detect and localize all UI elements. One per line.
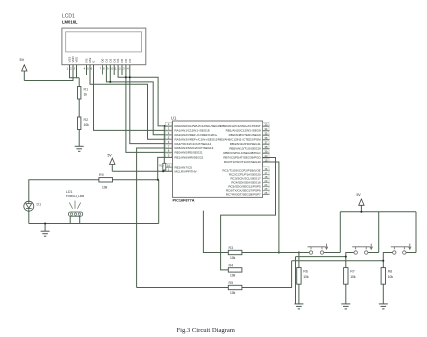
svg-text:RC0/T1OSO/T1CKI/SEG40: RC0/T1OSO/T1CKI/SEG40 (224, 160, 261, 164)
LED D1 (24, 201, 34, 211)
wire H_b to SW3 R8 node (292, 260, 384, 262)
svg-text:RE1/AN6/WR/SEG22: RE1/AN6/WR/SEG22 (175, 156, 204, 160)
wire 5V to MCLR pin (112, 170, 172, 172)
svg-text:RA4/T0CKI/C1OUT/SEG14: RA4/T0CKI/C1OUT/SEG14 (175, 142, 212, 146)
wire PIC RC0 down to switch rail (263, 162, 279, 253)
svg-text:6: 6 (91, 67, 93, 71)
svg-text:RC7/RX/DT/SEG28/PSP7: RC7/RX/DT/SEG28/PSP7 (226, 193, 261, 197)
wire H_a from SW2 R7 node (296, 256, 346, 258)
wire PIC RE1 row6 to R5 (137, 148, 173, 288)
wire LCD VEE pin3 drop (76, 65, 78, 78)
ground below R2 (75, 146, 84, 151)
svg-text:5V: 5V (108, 154, 113, 158)
wire RA0 row down to pull resistor (163, 126, 165, 163)
svg-text:MCLR/VPP/THV: MCLR/VPP/THV (175, 170, 197, 174)
svg-text:35: 35 (264, 131, 268, 135)
junction dot rail riser at R9 wire (157, 179, 159, 181)
U1 left pin stubs (166, 166, 173, 168)
svg-text:RB0/AN12/C12IN0+/FLT0/INT: RB0/AN12/C12IN0+/FLT0/INT (220, 124, 260, 128)
light rays (69, 201, 80, 209)
wire LDR right leg (79, 216, 81, 223)
resistor R3 (228, 246, 242, 260)
junction dot on PIC RA0 row (164, 125, 166, 127)
wire R6 to ground (298, 284, 300, 304)
wire sensor bottom rail (29, 223, 159, 225)
svg-text:R10: R10 (159, 164, 164, 167)
svg-text:LM016L: LM016L (62, 20, 78, 25)
power 5V arrow top left (22, 65, 27, 81)
svg-text:5: 5 (87, 67, 89, 71)
wire LDR left leg (69, 216, 71, 223)
wire riser SW3 right to 5V rail (415, 212, 417, 253)
svg-text:10k: 10k (230, 256, 236, 260)
resistor R8 (381, 268, 393, 285)
svg-text:37: 37 (264, 140, 268, 144)
svg-text:3: 3 (74, 67, 76, 71)
wire LCD D3 stub (113, 65, 115, 75)
wire LCD VSS pin1 to resistor column (70, 65, 80, 78)
wire ground tap on rail (44, 224, 46, 232)
LCD body (62, 28, 146, 65)
wire LCD D2 drop to H2 (109, 65, 111, 82)
wire R3 left (203, 252, 228, 254)
LCD screen (66, 32, 142, 52)
svg-text:36: 36 (264, 136, 268, 140)
svg-text:R3: R3 (229, 246, 234, 250)
LCD pin stub D0 unconnected (102, 65, 104, 75)
svg-text:7: 7 (100, 67, 102, 71)
junction dot PIC wire on switch rail (278, 252, 280, 254)
light sensor LD1 (66, 190, 85, 216)
svg-text:4: 4 (84, 67, 86, 71)
svg-text:10k: 10k (230, 291, 236, 295)
microcontroller U1 (165, 116, 269, 203)
wire R6 top from switch rail (298, 253, 300, 268)
U1 right pin number boxes (263, 122, 269, 194)
power 5V arrow at MCLR (108, 154, 116, 172)
LCD pin numbers 1-14 (67, 67, 129, 71)
U1 left pin number boxes (165, 122, 171, 171)
wire R2 to ground (78, 130, 80, 147)
svg-text:VEE: VEE (75, 57, 79, 63)
resistor R5 (228, 281, 242, 295)
wire LCD D6 long drop to PIC RE0 row7 (126, 65, 173, 153)
svg-text:34: 34 (264, 127, 268, 131)
junction dot R6 on switch rail (298, 252, 300, 254)
svg-text:1: 1 (67, 67, 69, 71)
wire 5V rail to LCD VDD pin2 (24, 65, 73, 81)
svg-text:R5: R5 (229, 281, 234, 285)
wire R8 to ground (382, 284, 384, 304)
junction dot ground tap (44, 223, 46, 225)
svg-text:9: 9 (107, 67, 109, 71)
svg-text:RB3/AN9/C12IN2-/CTED2/PGM: RB3/AN9/C12IN2-/CTED2/PGM (218, 138, 261, 142)
svg-text:R2: R2 (84, 118, 89, 122)
wire LCD D5 stub (121, 65, 123, 75)
resistor R9 (99, 173, 113, 190)
svg-text:R9: R9 (99, 173, 104, 177)
svg-text:10k: 10k (102, 186, 108, 190)
resistor R10 small pull resistor at MCLR (159, 163, 166, 170)
resistor R6 (297, 268, 309, 285)
wire R7 to ground (345, 284, 347, 304)
junction dot D7 on H1 (129, 76, 131, 78)
wire SW2 right to riser (368, 252, 379, 254)
svg-text:39: 39 (264, 149, 268, 153)
ground below sensor rail (41, 231, 50, 236)
U1 right pin numbers (264, 122, 268, 195)
wire SW3 left stub and drop to R8 (383, 253, 392, 268)
U1 right pin stubs (263, 126, 270, 195)
svg-text:10k: 10k (388, 275, 394, 279)
svg-text:R8: R8 (388, 270, 393, 274)
wire H1 bus LCD D4 to PIC RA0 (118, 65, 172, 126)
svg-text:E: E (92, 61, 96, 63)
wire switch rail R3 to SW1 (203, 211, 309, 253)
svg-text:RE0/AN5/RD/SEG21: RE0/AN5/RD/SEG21 (175, 151, 204, 155)
resistor R4 (228, 263, 242, 277)
wire riser SW1 right to 5V rail (339, 212, 341, 253)
svg-text:R6: R6 (303, 270, 308, 274)
resistor R1 (78, 87, 89, 100)
svg-text:TORCH_LDR: TORCH_LDR (66, 194, 85, 198)
wire SW1 right to riser (324, 252, 341, 254)
svg-text:R4: R4 (229, 263, 234, 267)
ground below R6 (294, 304, 303, 309)
svg-text:D7: D7 (128, 58, 132, 62)
junction dot D6 on H1 (125, 76, 127, 78)
wire R3 right to switch rail (242, 252, 309, 254)
push button SW3 (391, 244, 411, 255)
svg-text:RB6/ICSPCLK/SEG38/PGC: RB6/ICSPCLK/SEG38/PGC (223, 151, 261, 155)
wire into resistor R1 (78, 78, 80, 87)
svg-text:RB1/AN10/C12IN3-/SEG8: RB1/AN10/C12IN3-/SEG8 (226, 129, 261, 133)
svg-text:RB2/AN8/CTED1/SEG9: RB2/AN8/CTED1/SEG9 (229, 133, 261, 137)
svg-text:RB4/AN11/P1D/SEG11: RB4/AN11/P1D/SEG11 (230, 142, 261, 146)
wire R1 to R2 (78, 99, 80, 117)
svg-text:RA3/AN3/VREF+/C1IN+/SEG15: RA3/AN3/VREF+/C1IN+/SEG15 (175, 137, 218, 141)
svg-text:D1: D1 (37, 203, 42, 207)
svg-text:RA2/AN2/VREF-/CVREF/C2IN+: RA2/AN2/VREF-/CVREF/C2IN+ (175, 133, 218, 137)
svg-text:8: 8 (103, 67, 105, 71)
svg-text:RA0/AN0/ULPWU/C12IN0-/SEG33: RA0/AN0/ULPWU/C12IN0-/SEG33 (175, 124, 222, 128)
U1 body (173, 121, 263, 197)
svg-text:10k: 10k (350, 275, 356, 279)
svg-text:RA1/AN1/C12IN1-/SEG18: RA1/AN1/C12IN1-/SEG18 (175, 129, 210, 133)
wire D1 cathode to bottom rail (28, 211, 30, 223)
resistor R2 (78, 117, 90, 130)
svg-text:5V: 5V (20, 58, 25, 62)
svg-text:2: 2 (70, 67, 72, 71)
svg-text:R1: R1 (84, 88, 89, 92)
junction dot 5V rail (360, 211, 362, 213)
power 5V rail above switches (340, 211, 416, 213)
svg-text:10k: 10k (230, 273, 236, 277)
wire PIC RB6 to R4 (221, 158, 276, 270)
junction dot R7 node (345, 256, 347, 258)
junction dot R8 node (382, 260, 384, 262)
svg-text:33: 33 (264, 122, 268, 126)
junction dot D2 on H2 (109, 81, 111, 83)
wire LDR rail riser (158, 180, 160, 224)
svg-text:RB7/ICSPDAT/SEG39/PGD: RB7/ICSPDAT/SEG39/PGD (223, 156, 261, 160)
wire H3 LCD RW to PIC RA3 row4 (90, 65, 173, 140)
U1 left pin names (175, 124, 222, 173)
svg-text:38: 38 (264, 145, 268, 149)
svg-text:RA5/AN4/SS/C2OUT/SEG13: RA5/AN4/SS/C2OUT/SEG13 (175, 146, 214, 150)
wire LCD E to PIC RA1 row2 (94, 65, 173, 131)
push button SW1 (308, 244, 328, 255)
wire D1 anode to R9 (29, 180, 99, 201)
wire R9 to PIC riser (113, 157, 173, 179)
svg-text:RB5/AN13/T1G/SEG29: RB5/AN13/T1G/SEG29 (229, 147, 261, 151)
resistor R7 (344, 268, 356, 285)
wire H2 bus LCD D1 D2 to PIC RA2 row3 (106, 65, 172, 135)
wire SW2 left stub and drop to R7 (346, 253, 354, 268)
wire LCD D7 long drop to PIC RA4 row5 (130, 65, 173, 144)
U1 right pin names (218, 124, 262, 197)
svg-text:26: 26 (264, 191, 268, 195)
svg-text:U1: U1 (171, 116, 177, 121)
power 5V arrow above switches (360, 205, 362, 211)
svg-text:PIC16F877A: PIC16F877A (173, 199, 195, 203)
LDR body (68, 212, 82, 216)
wire riser SW2 right to 5V rail (378, 212, 380, 253)
wire R5 left from PIC column (137, 287, 229, 289)
svg-text:Fig.3 Circuit Diagram: Fig.3 Circuit Diagram (177, 327, 236, 334)
wire LCD RS stub (86, 65, 88, 75)
svg-text:10k: 10k (303, 275, 309, 279)
U1 left pin numbers (167, 122, 171, 171)
ground below R8 (379, 304, 388, 309)
wire R5 right riser to H_b (242, 261, 292, 288)
svg-text:10k: 10k (84, 123, 90, 127)
svg-text:R7: R7 (350, 270, 355, 274)
LCD display LCD1 (62, 14, 146, 75)
svg-text:5V: 5V (357, 193, 362, 197)
svg-text:1k: 1k (84, 93, 88, 97)
wire SW3 right to riser (406, 252, 416, 254)
wire pull resistor to MCLR rail (163, 170, 165, 171)
junction dot on MCLR rail (162, 170, 164, 172)
ground below R7 (341, 304, 350, 309)
push button SW2 (352, 244, 372, 255)
wire H_a left drop (295, 257, 297, 304)
